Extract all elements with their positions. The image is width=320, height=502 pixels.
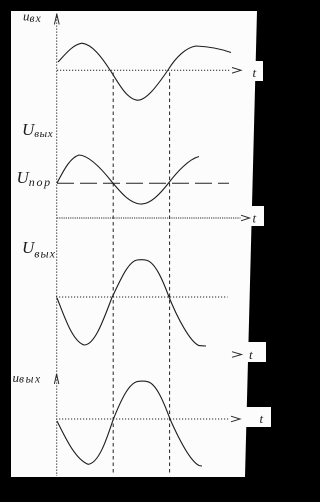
plot 2 axis arrow [241,215,250,221]
axis arrowhead top (plot 1) [54,14,59,25]
vertical axis (dotted, common to all four plots) [56,14,58,477]
sine wave 3 (inverted, large) [57,260,206,346]
plot 2 time axis (solid thin) [57,217,241,219]
plot 4 time axis (dotted) [56,418,230,420]
vertical dashed marker line 2 [169,73,171,475]
plot 4 axis arrow [231,416,240,422]
vertical dashed marker line 1 [112,73,114,475]
plot 1 time axis (dotted) [57,69,231,71]
right margin white pockets for t labels [245,61,263,81]
threshold long-dash line (plot 2) [57,182,229,184]
plot 3 zero line (dotted) [56,296,228,298]
svg-text:t: t [253,211,257,226]
plot 1 axis arrow [232,68,241,74]
svg-text:t: t [253,65,257,80]
svg-text:t: t [260,411,264,426]
sine wave 2 [57,155,199,204]
sine wave 4 (inverted, large) [57,381,202,466]
svg-text:t: t [249,347,253,362]
axis arrowhead plot 4 [54,374,58,384]
sine wave 1 (input) [58,43,231,100]
plot 3 axis arrow with short line [232,352,242,358]
